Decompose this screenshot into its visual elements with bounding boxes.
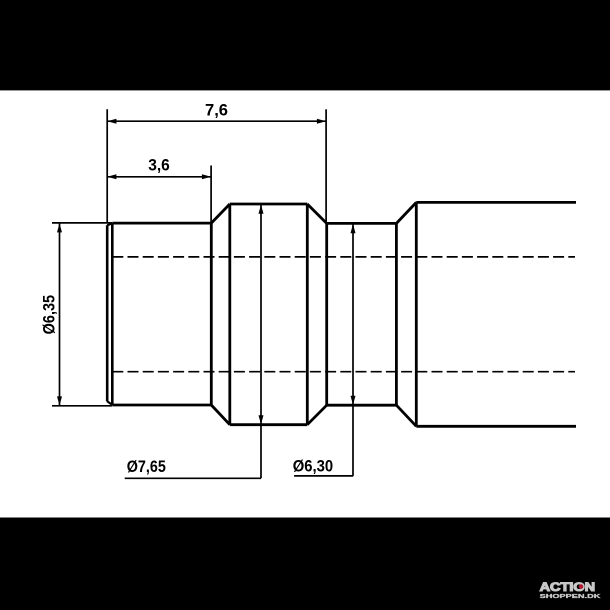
dim 3,6 line (107, 176, 211, 178)
svg-text:SHOPPEN.DK: SHOPPEN.DK (540, 594, 601, 600)
groove top edge (327, 222, 397, 225)
groove left face (325, 223, 328, 405)
dim 6,35 line (59, 223, 61, 405)
groove bottom edge (327, 404, 397, 407)
svg-text:Ø6,30: Ø6,30 (293, 457, 333, 476)
dim 6,30 shelf (294, 475, 353, 477)
svg-text:ACTION: ACTION (540, 580, 596, 594)
right cone up top edge (396, 202, 416, 223)
arrowhead 7,6 right (317, 119, 326, 124)
dim 3,6 right extension line (210, 166, 212, 223)
svg-text:7,6: 7,6 (205, 101, 228, 120)
big cylinder bottom edge (230, 423, 307, 426)
left end face (106, 225, 109, 401)
white drawing area (0, 90, 610, 517)
dim 7,6 left extension line (106, 109, 108, 223)
groove right face (395, 223, 398, 405)
cone bottom edge (211, 405, 230, 425)
chamfer edge line (111, 223, 114, 405)
cone top edge (211, 204, 230, 223)
small cylinder top edge (112, 222, 211, 225)
arrowhead 6,35 bottom (57, 396, 62, 405)
arrowhead 3,6 right (202, 174, 211, 179)
hidden bore upper line (112, 256, 575, 258)
right cone bottom edge (307, 405, 326, 425)
svg-text:Ø7,65: Ø7,65 (127, 457, 166, 476)
dim 6,35 top extension line (52, 222, 112, 224)
arrowhead 7,65 top (259, 205, 264, 214)
right cone top edge (307, 204, 326, 223)
big cylinder left face (228, 204, 231, 425)
big cylinder top edge (230, 203, 307, 206)
bottom chamfer corner (107, 401, 112, 405)
arrowhead 6,30 bottom (351, 396, 356, 405)
dim 6,35 bottom extension line (52, 405, 112, 407)
right cylinder bottom edge (416, 425, 576, 428)
right cone down bottom edge (396, 405, 416, 426)
svg-text:3,6: 3,6 (148, 156, 170, 175)
svg-text:Ø6,35: Ø6,35 (40, 295, 59, 335)
arrowhead 7,6 left (107, 119, 116, 124)
dim 6,30 leader vertical (352, 224, 354, 476)
small cylinder bottom edge (112, 404, 211, 407)
dim 7,65 leader vertical (260, 205, 262, 479)
arrowhead 3,6 left (107, 174, 116, 179)
top chamfer corner (107, 223, 112, 225)
dim 7,65 shelf (125, 477, 261, 479)
hidden bore lower line (112, 371, 575, 373)
face between small cylinder and cone (210, 223, 213, 405)
big cylinder right face (306, 204, 309, 425)
right cylinder left face (415, 202, 418, 426)
arrowhead 6,35 top (57, 223, 62, 232)
dim 7,6 line (107, 120, 326, 122)
right cylinder top edge (416, 201, 576, 204)
arrowhead 7,65 bottom (259, 415, 264, 424)
dim 7,6 right extension line (325, 109, 327, 223)
arrowhead 6,30 top (351, 224, 356, 233)
watermark red dot (579, 584, 584, 589)
